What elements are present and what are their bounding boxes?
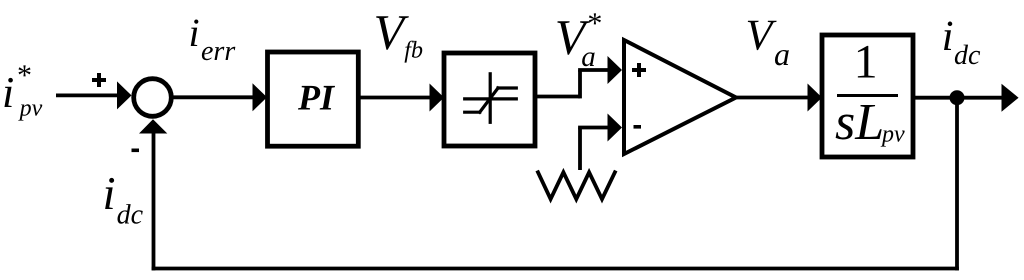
feedback wire left vertical [152,132,156,270]
label V*_a [555,7,603,73]
label V_fb [374,4,423,64]
label i_dc (output) [942,13,981,71]
summing junction [134,79,172,117]
PI block [268,52,359,146]
svg-text:fb: fb [404,38,423,64]
plant block 1/sLpv [822,35,913,157]
plus sign inside comparator [632,63,646,77]
svg-text:err: err [201,36,235,67]
comparator (PWM) triangle [624,40,736,154]
svg-text:sL: sL [835,94,884,151]
triangular carrier wave symbol [538,172,615,199]
wire summing junction to PI block [172,83,268,111]
feedback wire bottom horizontal [152,267,959,271]
svg-text:pv: pv [880,122,905,148]
node (branch dot) [950,90,965,105]
saturation symbol inside limiter [465,74,517,123]
label i_dc (feedback) [103,168,144,231]
label i_err [189,10,236,67]
svg-text:1: 1 [854,36,878,89]
wire limiter to comparator + input [535,56,622,98]
svg-text:pv: pv [18,96,43,122]
wire from i*_pv to summing junction [56,81,132,109]
plus sign at summing input [92,73,106,87]
svg-text:i: i [189,10,200,55]
feedback arrow into summing junction [139,119,167,133]
svg-text:i: i [2,68,14,117]
feedback wire right vertical [955,98,959,271]
svg-text:i: i [942,13,954,60]
label i*_pv (reference input) [2,59,43,122]
svg-text:i: i [103,168,116,220]
svg-text:dc: dc [117,200,144,231]
wire plant block to output [913,84,1019,112]
wire comparator to plant block [736,84,822,112]
svg-text:*: * [17,59,32,92]
svg-text:a: a [774,36,790,72]
svg-text:*: * [587,7,602,40]
limiter (saturation) block [444,53,535,146]
svg-text:PI: PI [297,77,336,117]
wire PI block to limiter block [358,84,444,112]
svg-text:a: a [581,41,596,73]
svg-text:dc: dc [954,40,981,71]
minus sign inside comparator [634,125,642,129]
label V_a [746,11,791,73]
wire carrier to comparator - input [578,114,622,171]
minus sign at feedback input [132,149,140,153]
